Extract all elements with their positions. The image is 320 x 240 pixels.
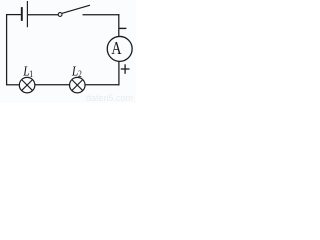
lamp L1 cross: [22, 80, 33, 91]
wire: bottom right horizontal to lamp L2: [85, 84, 119, 86]
wire: switch fixed contact to top-right corner: [83, 14, 120, 16]
label L1: [22, 63, 33, 79]
wire: right side down to ammeter: [118, 14, 120, 36]
ammeter negative terminal tick: [119, 27, 127, 29]
battery cell (negative short plate): [21, 7, 23, 21]
wire: ammeter bottom to bottom-right corner: [118, 61, 120, 85]
battery cell (positive long plate): [26, 1, 28, 27]
wire: bottom left horizontal: [6, 84, 19, 86]
wire: between lamps L2 and L1: [35, 84, 70, 86]
svg-text:A: A: [111, 39, 121, 58]
wire: top-left horizontal to battery: [6, 14, 21, 16]
svg-text:dafen5.com: dafen5.com: [86, 93, 133, 103]
label L2: [71, 63, 82, 79]
ammeter U1 circle: [107, 36, 132, 61]
wire: left side vertical: [6, 15, 8, 85]
lamp L2 cross: [72, 80, 83, 91]
ammeter positive terminal plus sign: [121, 68, 130, 70]
ammeter letter A: [111, 39, 121, 58]
lamp L2 circle: [70, 77, 86, 93]
lamp L1 circle: [19, 77, 34, 93]
switch S pivot: [58, 13, 62, 17]
wire: battery to switch: [28, 14, 58, 16]
switch lever (open): [62, 5, 90, 13]
